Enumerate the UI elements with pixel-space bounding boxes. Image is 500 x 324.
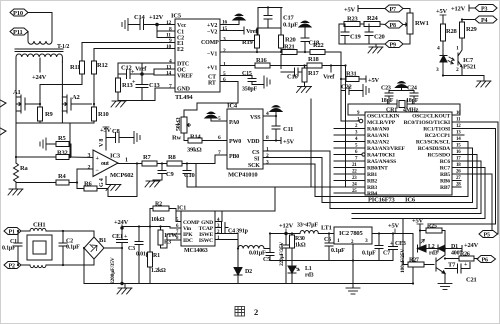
svg-text:P521: P521 xyxy=(463,64,476,71)
wire 7805 gnd pin xyxy=(352,244,354,288)
pin numbers PIC right xyxy=(456,111,461,188)
wire P10 to coil right xyxy=(28,13,52,39)
svg-text:+12V: +12V xyxy=(451,6,466,13)
capacitor CE2 electrolytic xyxy=(279,234,291,284)
resistor R31 xyxy=(341,71,359,82)
edge connector stub upper xyxy=(0,100,6,107)
svg-text:R1: R1 xyxy=(153,253,160,259)
resistor R9 xyxy=(38,107,54,121)
svg-text:P2: P2 xyxy=(9,264,15,270)
primary winding T-1 upper xyxy=(28,38,52,44)
svg-text:C16: C16 xyxy=(287,74,299,81)
capacitor C8 xyxy=(106,128,134,143)
resistor R23 xyxy=(344,16,360,27)
svg-text:RC7: RC7 xyxy=(440,166,451,172)
wire Vcc node to C1 C2 pins xyxy=(156,25,158,38)
svg-text:D1: D1 xyxy=(451,244,458,250)
wire E1 line to R11 xyxy=(82,43,175,62)
wiper arrow RW1 xyxy=(403,23,408,26)
wire switch pins join xyxy=(215,234,238,240)
svg-text:R29: R29 xyxy=(466,26,478,33)
op-amp U IC5 TL494 box xyxy=(171,13,220,102)
svg-text:4: 4 xyxy=(217,218,220,223)
svg-text:2200µF/35V: 2200µF/35V xyxy=(110,257,116,284)
node +5V at RW1 net xyxy=(344,6,385,14)
svg-text:1: 1 xyxy=(223,62,226,68)
svg-text:4: 4 xyxy=(437,46,440,52)
svg-text:5: 5 xyxy=(176,218,179,223)
svg-text:R30: R30 xyxy=(295,236,305,242)
op-amp U IC4 MCP41010 box xyxy=(227,103,263,179)
wire right riser to rail xyxy=(412,234,414,284)
svg-text:C5: C5 xyxy=(263,257,270,263)
wire secondary right leg to A2 xyxy=(61,62,63,97)
wire E2 line to R12 xyxy=(94,49,175,62)
capacitor C9 xyxy=(153,164,174,181)
node +12V opto xyxy=(451,5,475,13)
transistor T7 xyxy=(436,255,456,274)
capacitor C5 xyxy=(249,249,274,264)
resistor R8 xyxy=(167,154,182,166)
svg-text:V 8: V 8 xyxy=(99,139,105,147)
potentiometer Rw xyxy=(172,117,191,142)
svg-text:SI: SI xyxy=(254,157,260,163)
wire R2 to COMP xyxy=(169,209,181,222)
svg-text:PB0: PB0 xyxy=(229,154,239,160)
node +5V driver xyxy=(412,218,424,231)
svg-text:T7: T7 xyxy=(448,262,456,269)
wire R25 right down xyxy=(442,231,445,256)
svg-text:C1: C1 xyxy=(10,239,17,245)
wire R10 bottom to rail xyxy=(93,121,95,123)
svg-text:D2: D2 xyxy=(245,269,252,275)
wire R24 to P8 xyxy=(380,23,385,26)
svg-text:2: 2 xyxy=(217,230,220,235)
svg-text:6: 6 xyxy=(223,77,226,83)
wire COMP pin right xyxy=(220,8,258,41)
svg-text:P7: P7 xyxy=(390,7,396,13)
wire R5 to R32 junction xyxy=(69,144,71,157)
svg-text:C20: C20 xyxy=(374,34,385,41)
svg-text:C9: C9 xyxy=(166,171,174,178)
capacitor C7 xyxy=(362,234,390,261)
resistor R14 xyxy=(187,134,202,154)
svg-text:+5V: +5V xyxy=(344,7,356,14)
wire R27 to base xyxy=(424,264,434,266)
wire R32 to opamp plus xyxy=(69,156,93,159)
wire GND pin down xyxy=(155,88,175,101)
svg-text:RA3/AN3/VREF: RA3/AN3/VREF xyxy=(367,146,405,152)
svg-text:R8: R8 xyxy=(168,154,176,161)
ground below 7805 xyxy=(346,288,360,294)
wire rail to R32 xyxy=(16,156,56,158)
wire R2 net rail xyxy=(176,210,275,212)
svg-text:CS: CS xyxy=(252,150,260,156)
svg-text:P6: P6 xyxy=(482,258,488,264)
svg-text:C7: C7 xyxy=(383,251,390,257)
svg-text:10: 10 xyxy=(166,44,172,50)
label LT1 xyxy=(297,223,332,232)
svg-text:P5: P5 xyxy=(484,233,490,239)
wire VSS right xyxy=(263,115,276,117)
svg-text:R12: R12 xyxy=(97,62,108,69)
resistor R20 xyxy=(279,8,296,53)
svg-text:3: 3 xyxy=(266,160,269,166)
wire R12 to R10 and A2 gate node xyxy=(93,74,95,107)
wire R4 to opamp minus xyxy=(69,169,93,183)
wire CT pin xyxy=(220,75,252,77)
svg-text:+24V: +24V xyxy=(464,242,479,249)
wire Vin feed xyxy=(170,227,181,229)
wire R23 to R24 xyxy=(360,23,364,25)
wire secondary left leg to A1 xyxy=(15,62,17,97)
svg-text:0.1µF: 0.1µF xyxy=(66,245,80,251)
svg-text:1: 1 xyxy=(217,236,220,241)
wire to pin C1 xyxy=(157,30,175,32)
potentiometer RW1 xyxy=(407,13,429,34)
svg-text:PA0: PA0 xyxy=(229,120,239,126)
svg-text:MC14063: MC14063 xyxy=(184,248,208,254)
bridge rectifier B1 xyxy=(84,231,122,284)
svg-text:3: 3 xyxy=(223,37,226,43)
op-amp U IC6 PIC16F73 box xyxy=(365,112,452,204)
inverted ground at VSS xyxy=(270,106,282,117)
resistor R30 xyxy=(290,234,306,249)
capacitor C13 electrolytic xyxy=(132,74,161,101)
svg-text:3: 3 xyxy=(365,238,368,244)
svg-text:2: 2 xyxy=(254,307,258,317)
svg-text:P8: P8 xyxy=(390,23,396,29)
svg-text:10kΩ: 10kΩ xyxy=(151,217,165,223)
node +24V center tap xyxy=(32,58,47,81)
svg-text:+: + xyxy=(464,262,468,268)
ground left of R5 xyxy=(40,138,46,150)
connector P5 xyxy=(479,231,498,239)
wire pot bottom to R14 xyxy=(184,133,188,141)
ground below R13 rail xyxy=(111,101,126,107)
svg-text:R9: R9 xyxy=(45,111,53,118)
inverted ground above C18 xyxy=(299,21,311,27)
svg-text:VSS: VSS xyxy=(250,115,261,121)
svg-text:R24: R24 xyxy=(367,15,379,22)
ground below C9 xyxy=(145,180,160,187)
wire riser x311 xyxy=(310,99,312,187)
wire DTC line xyxy=(118,62,175,64)
wire PB0 left and down xyxy=(196,155,227,164)
svg-text:Vref: Vref xyxy=(135,66,147,73)
wire switch node down xyxy=(237,234,239,268)
svg-text:C11: C11 xyxy=(283,126,293,133)
wire RB7 stub xyxy=(452,186,461,188)
svg-text:12: 12 xyxy=(166,20,172,26)
svg-text:IC2 7805: IC2 7805 xyxy=(339,230,363,237)
svg-text:+V1: +V1 xyxy=(207,66,217,72)
resistor R27 xyxy=(403,219,424,268)
inverted ground at +V2 xyxy=(233,14,245,25)
svg-text:+V2: +V2 xyxy=(207,23,217,29)
svg-text:rd3: rd3 xyxy=(429,251,438,257)
capacitor C23 xyxy=(381,86,394,105)
crystal net rail xyxy=(348,103,460,105)
wire opamp out to node 1 xyxy=(118,163,142,165)
resistor Ra xyxy=(14,163,29,182)
svg-text:RC4/SDI/SDA: RC4/SDI/SDA xyxy=(418,146,450,152)
svg-text:2: 2 xyxy=(223,48,226,54)
resistor R1 xyxy=(148,227,167,284)
pin numbers TL494 left xyxy=(166,20,172,90)
wire inductor to +12V node xyxy=(264,234,286,249)
resistor R7 xyxy=(142,154,157,166)
svg-text:18pF: 18pF xyxy=(381,98,394,104)
resistor R13 xyxy=(116,63,134,101)
svg-text:+5V: +5V xyxy=(368,77,380,84)
svg-text:IC4: IC4 xyxy=(227,103,238,110)
capacitor CE1 electrolytic xyxy=(110,234,128,284)
wire R16 to R18 xyxy=(270,65,307,67)
wire R23 left leg xyxy=(339,24,344,44)
svg-text:R18: R18 xyxy=(308,56,320,63)
connector P6 xyxy=(477,256,496,264)
wire VDD right to +5V xyxy=(263,138,295,146)
wire top rail C17 xyxy=(258,7,282,9)
LED L2 xyxy=(418,239,439,256)
wire RC6 wrap xyxy=(352,161,481,214)
svg-text:+5V: +5V xyxy=(436,8,448,15)
svg-text:P9: P9 xyxy=(390,43,396,49)
wire VREF pin xyxy=(154,74,175,76)
svg-text:out: out xyxy=(101,161,109,167)
svg-text:Vref: Vref xyxy=(323,74,335,81)
svg-text:L1: L1 xyxy=(305,266,312,272)
wire SI to wrap xyxy=(263,157,322,159)
wire bottom dc rail xyxy=(84,283,255,285)
wire RC2 stub xyxy=(452,134,464,136)
svg-text:3: 3 xyxy=(436,67,439,73)
op-amp U IC2 7805 box xyxy=(334,227,372,245)
pin numbers TL494 right xyxy=(222,20,228,84)
wire RB6 stub xyxy=(452,180,461,182)
svg-text:+24V: +24V xyxy=(32,74,47,81)
resistor R4 xyxy=(56,173,69,185)
svg-text:G 4: G 4 xyxy=(99,178,105,187)
svg-text:A2: A2 xyxy=(72,94,80,101)
svg-text:RB7: RB7 xyxy=(440,185,450,191)
svg-text:10: 10 xyxy=(456,111,461,116)
ground at bottom rail xyxy=(117,282,132,294)
svg-text:P10: P10 xyxy=(13,10,23,17)
svg-text:IC3: IC3 xyxy=(110,153,121,160)
capacitor C17 xyxy=(264,8,298,29)
svg-text:rd3: rd3 xyxy=(305,273,314,279)
svg-text:P3: P3 xyxy=(481,7,487,13)
wire OC pin xyxy=(154,68,175,70)
svg-text:C3: C3 xyxy=(128,246,135,252)
wire RC0 wrap to P5 tip xyxy=(452,122,498,234)
pin numbers PIC left xyxy=(352,111,360,194)
wire RB5 wrap to P5 xyxy=(452,174,492,230)
ground right of C8 xyxy=(134,132,140,144)
node +5V opamp supply xyxy=(100,127,112,150)
wire P9 to pot bottom xyxy=(403,34,410,44)
wire OSC2 xyxy=(452,104,460,115)
ground below T7 xyxy=(438,284,452,290)
op-amp U IC3 MCP602 xyxy=(88,139,134,187)
node +5V R31 xyxy=(359,76,380,84)
svg-text:1: 1 xyxy=(456,46,459,52)
wire +V1 line xyxy=(220,65,255,67)
node Vref tap xyxy=(323,66,335,81)
wire net C10 rail xyxy=(187,186,346,188)
diode D1 4007 xyxy=(438,244,462,257)
svg-text:C19: C19 xyxy=(350,34,362,41)
svg-text:P1: P1 xyxy=(9,230,15,236)
wire R22 right to riser xyxy=(325,51,341,53)
wire R29 to collector xyxy=(461,38,463,44)
ground below R17 xyxy=(297,87,312,93)
svg-text:C21: C21 xyxy=(466,277,477,284)
svg-text:1: 1 xyxy=(125,158,128,164)
svg-text:RC5/SDO: RC5/SDO xyxy=(427,153,450,159)
wire SCK to wrap xyxy=(263,163,315,165)
svg-text:18pF: 18pF xyxy=(406,98,419,104)
capacitor C15 350pF xyxy=(242,71,264,93)
capacitor C20 xyxy=(365,24,385,44)
wire RC1 wrap xyxy=(430,129,496,225)
wire R8 out to PB0 riser xyxy=(182,164,196,188)
connector P4 xyxy=(475,16,497,24)
resistor R10 xyxy=(92,107,109,121)
connector P9 xyxy=(385,41,403,49)
svg-text:R28: R28 xyxy=(446,28,458,35)
svg-text:TL494: TL494 xyxy=(175,94,193,101)
pin circle MCLR xyxy=(359,119,363,123)
svg-text:OSC1/CLKIN: OSC1/CLKIN xyxy=(367,114,399,120)
wire +V2 pin to mound xyxy=(220,24,239,26)
svg-text:1.2kΩ: 1.2kΩ xyxy=(151,268,166,274)
svg-text:T-1/2: T-1/2 xyxy=(57,44,69,50)
diode D2 xyxy=(234,268,252,284)
capacitor CE3 electrolytic xyxy=(389,234,407,274)
svg-text:C22: C22 xyxy=(341,84,352,91)
svg-text:RB0/INT: RB0/INT xyxy=(367,166,388,172)
secondary winding xyxy=(16,54,62,62)
wire P7 to pot top xyxy=(403,9,410,14)
svg-text:Vcc: Vcc xyxy=(177,23,187,29)
pin circle RA4 xyxy=(362,153,365,156)
svg-text:33~47µF: 33~47µF xyxy=(297,223,318,229)
wire R18 right xyxy=(322,65,346,67)
wire feedback loop to output xyxy=(97,164,137,197)
svg-text:R7: R7 xyxy=(143,154,151,161)
wire T7 emitter to ground xyxy=(444,274,446,284)
svg-text:RB1: RB1 xyxy=(367,172,377,178)
wire 7805 out xyxy=(372,233,413,235)
svg-text:C15: C15 xyxy=(242,71,252,77)
svg-text:+: + xyxy=(96,156,100,162)
wire IPK IDC pins xyxy=(167,234,181,240)
resistor R28 xyxy=(441,24,458,41)
wire GND pin up xyxy=(215,211,222,222)
svg-text:2: 2 xyxy=(456,67,459,73)
wire PA0 to ground xyxy=(211,120,227,122)
transistor A2 xyxy=(62,94,91,113)
svg-text:R5: R5 xyxy=(58,135,66,142)
wire A2 source to rail xyxy=(61,111,63,123)
svg-text:R10: R10 xyxy=(98,111,109,118)
capacitor C22 xyxy=(341,84,363,95)
node +12V reg xyxy=(279,223,294,239)
wire RC7 wrap to R27 xyxy=(352,168,485,219)
svg-text:RA5/AN4/SS: RA5/AN4/SS xyxy=(367,159,396,165)
svg-text:R4: R4 xyxy=(58,173,66,180)
wire LED branch xyxy=(419,231,421,249)
ground right of C22 xyxy=(363,85,369,97)
svg-text:RB5: RB5 xyxy=(440,172,450,178)
svg-text:+5V: +5V xyxy=(283,139,295,146)
svg-text:0.1µF: 0.1µF xyxy=(362,251,376,257)
wire opto emitter rail xyxy=(443,70,484,76)
connector P3 xyxy=(475,5,497,13)
svg-text:P11: P11 xyxy=(13,29,23,36)
svg-text:R17: R17 xyxy=(308,70,320,77)
capacitor C21 xyxy=(445,262,477,284)
svg-text:RA4/T0CKI: RA4/T0CKI xyxy=(367,153,395,159)
svg-text:−V1: −V1 xyxy=(207,52,217,58)
wire Ra to R4 xyxy=(16,182,56,184)
svg-text:1: 1 xyxy=(266,147,269,153)
svg-text:IC5: IC5 xyxy=(171,13,182,20)
wire R14 to PW0 xyxy=(202,140,227,142)
svg-text:+24V: +24V xyxy=(114,219,129,226)
wire -V1 net to R31 riser xyxy=(340,52,342,121)
wire crystal cap top rail xyxy=(389,90,414,92)
svg-text:0.1µF: 0.1µF xyxy=(331,248,345,254)
svg-text:RC0/T1OSO/T1CKI: RC0/T1OSO/T1CKI xyxy=(404,120,450,126)
svg-text:MCLR/VPP: MCLR/VPP xyxy=(367,120,396,126)
wire R7 to R8 xyxy=(157,163,167,165)
wire -V1 line left xyxy=(220,51,282,53)
svg-text:39kΩ: 39kΩ xyxy=(187,147,202,154)
wire RC5 wrap to CS xyxy=(330,151,477,209)
op-amp U IC1 MC34063 box xyxy=(177,206,215,255)
wire bottom rail to P9 xyxy=(339,43,385,45)
svg-text:ISWC: ISWC xyxy=(199,238,213,244)
resistor R26 xyxy=(445,252,478,262)
wire node to OC VREF xyxy=(142,73,154,75)
svg-text:P4: P4 xyxy=(481,18,487,24)
svg-text:0.01µF: 0.01µF xyxy=(249,251,266,257)
ground below Ra xyxy=(8,183,23,195)
node +24V driver xyxy=(462,242,479,252)
wire +12V to LT1 xyxy=(286,233,300,235)
resistor R21 xyxy=(282,44,297,55)
svg-text:RC3/SCK/SCL: RC3/SCK/SCL xyxy=(416,140,451,146)
pin numbers IC4 xyxy=(218,111,269,166)
wire bottom gnd rail xyxy=(118,100,155,102)
wire +24V rail xyxy=(122,226,170,228)
svg-text:C18: C18 xyxy=(309,40,321,47)
ground left of C14 xyxy=(122,19,128,31)
wire RC4 wrap to SI xyxy=(322,148,473,203)
ground right of C15 xyxy=(264,76,270,88)
wire source rail xyxy=(16,111,94,123)
svg-text:+: + xyxy=(132,80,136,86)
svg-text:14: 14 xyxy=(166,71,172,77)
svg-text:E2: E2 xyxy=(177,47,184,53)
transformer core T-1/2 xyxy=(15,44,69,52)
svg-text:RC6: RC6 xyxy=(440,159,451,165)
capacitor C11 xyxy=(272,116,293,141)
